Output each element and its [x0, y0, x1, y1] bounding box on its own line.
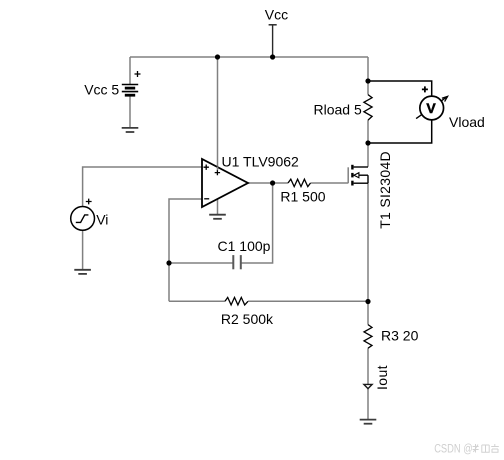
label Rload 5 — [314, 101, 362, 117]
junction dot source/R2/R3 node — [365, 299, 370, 304]
ground below Iout — [360, 420, 377, 424]
source Vi — [71, 199, 95, 231]
svg-text:Vcc 5: Vcc 5 — [84, 82, 119, 98]
wire R1 to gate — [311, 182, 349, 184]
label U1 TLV9062 — [222, 153, 300, 169]
resistor R1 — [288, 179, 311, 186]
power symbol Vcc — [269, 25, 277, 57]
svg-text:C1 100p: C1 100p — [218, 238, 271, 254]
transistor T1 nmos — [348, 165, 368, 186]
label T1 SI2304D vertical — [377, 151, 393, 229]
ground below battery — [122, 128, 139, 132]
op-amp U1 — [202, 159, 248, 207]
wire Rload bottom stub — [367, 120, 369, 143]
label C1 100p — [218, 238, 271, 254]
junction dot node A feedback/C1 — [166, 260, 171, 265]
current probe arrow Iout — [364, 384, 372, 388]
wire rail corner down to Rload node — [367, 57, 369, 81]
wire inverting input feedback — [169, 199, 202, 301]
wire Vi bottom to ground — [82, 230, 84, 270]
wire op-amp negative supply to ground — [217, 197, 219, 215]
label Iout vertical — [374, 365, 390, 390]
wire battery top — [129, 57, 131, 85]
wire R3 bottom to ground — [367, 348, 369, 419]
wire source down to R3 node — [367, 183, 369, 324]
label Vload — [449, 114, 485, 130]
wire R2 right to source node — [248, 300, 368, 302]
svg-text:CSDN @: CSDN @ — [434, 443, 473, 455]
junction dot output node — [270, 180, 275, 185]
label Vi — [96, 212, 108, 228]
wire Vi to non-inverting input — [83, 167, 202, 207]
svg-text:Iout: Iout — [374, 365, 390, 390]
svg-text:R3 20: R3 20 — [381, 328, 419, 344]
wire drain stub down — [367, 143, 369, 167]
svg-text:Vload: Vload — [449, 114, 485, 130]
junction dot Rload bottom / drain node — [365, 140, 370, 145]
label R1 500 — [280, 189, 325, 205]
svg-text:Vcc: Vcc — [265, 7, 288, 23]
battery V1 Vcc 5 — [122, 71, 141, 95]
svg-text:Rload 5: Rload 5 — [314, 101, 362, 117]
svg-text:R2 500k: R2 500k — [221, 311, 274, 327]
wire op-amp positive supply — [217, 57, 219, 170]
resistor Rload — [364, 95, 372, 121]
wire output node down to C1 right plate — [241, 183, 273, 263]
junction dot op-amp supply on rail — [215, 54, 220, 59]
junction dot Rload top node — [365, 78, 370, 83]
voltmeter Vload — [368, 81, 448, 143]
ground below Vi — [74, 270, 91, 274]
svg-text:Vi: Vi — [96, 212, 108, 228]
watermark CSDN — [434, 443, 499, 455]
svg-text:T1 SI2304D: T1 SI2304D — [377, 151, 393, 229]
resistor R3 — [364, 325, 372, 349]
label R2 500k — [221, 311, 274, 327]
wire Rload top stub — [367, 81, 369, 95]
wire battery bottom to ground — [129, 95, 131, 128]
junction dot Vcc stub on rail — [270, 54, 275, 59]
wire Vcc rail horizontal — [130, 56, 368, 58]
svg-text:U1 TLV9062: U1 TLV9062 — [222, 153, 300, 169]
label Vcc 5 — [84, 82, 119, 98]
svg-text:R1 500: R1 500 — [280, 189, 325, 205]
wire node A to C1 left plate — [169, 262, 233, 264]
capacitor C1 — [233, 255, 241, 269]
resistor R2 — [225, 297, 248, 305]
label Vcc — [265, 7, 288, 23]
wire op-amp output to R1 — [248, 182, 288, 184]
svg-text:V: V — [426, 100, 436, 116]
ground below op-amp — [209, 215, 226, 219]
label R3 20 — [381, 328, 419, 344]
wire R2 left — [169, 300, 225, 302]
